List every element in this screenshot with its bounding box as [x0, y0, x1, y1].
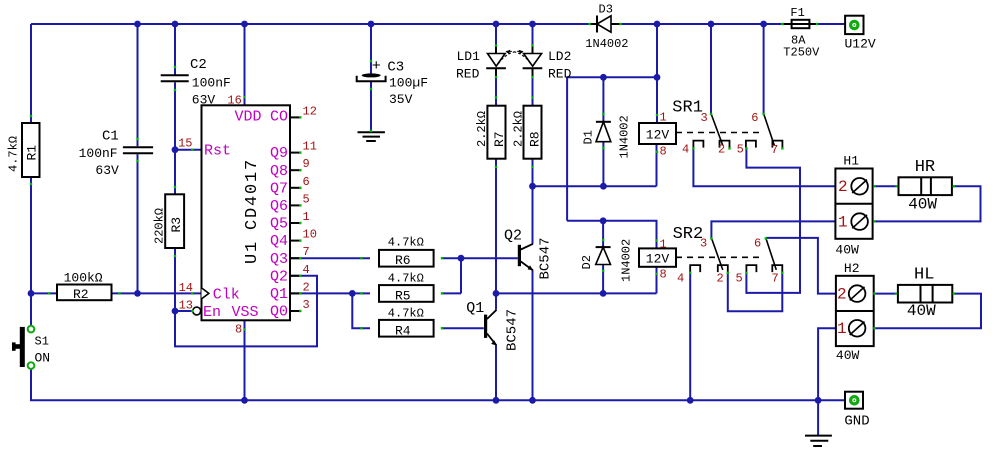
- svg-text:4.7kΩ: 4.7kΩ: [7, 136, 21, 172]
- wire Q1 emitter to ground rail: [495, 346, 497, 401]
- wire rail to C3 plus: [370, 24, 372, 75]
- resistor R5 4.7k: [379, 285, 434, 302]
- svg-text:R3: R3: [169, 217, 184, 233]
- wire fuse F1 to U12V terminal: [817, 23, 846, 25]
- wire D2 anode down: [602, 265, 604, 294]
- svg-text:40W: 40W: [907, 302, 936, 320]
- svg-text:12: 12: [303, 104, 317, 118]
- svg-text:3: 3: [303, 298, 310, 312]
- relay SR1 contact pin 7: [772, 141, 782, 148]
- svg-text:8: 8: [660, 145, 667, 159]
- svg-text:U1: U1: [243, 240, 262, 264]
- svg-text:7: 7: [771, 143, 778, 157]
- wire D1 cathode up: [602, 77, 604, 122]
- resistor R2 100k horizontal: [57, 285, 112, 301]
- svg-text:8: 8: [235, 323, 242, 337]
- svg-text:1: 1: [660, 111, 667, 125]
- capacitor C2 100nF 63V: [161, 74, 189, 76]
- svg-text:1: 1: [660, 238, 667, 252]
- wire rail to SR1 contact pin 3: [710, 24, 712, 114]
- wire R2 right to Clk pin 14: [112, 292, 202, 294]
- svg-text:12V: 12V: [646, 252, 670, 267]
- resistor R4 4.7k: [379, 320, 434, 337]
- relay SR1 contact pin 2: [720, 141, 730, 148]
- svg-text:Q6: Q6: [270, 198, 288, 215]
- pin 6 Q7: [290, 187, 300, 189]
- wire Q3 pin 7 to R6 left: [290, 257, 370, 259]
- svg-text:LD1: LD1: [457, 49, 481, 64]
- svg-text:220kΩ: 220kΩ: [153, 208, 167, 244]
- wire junction to Q2 base: [461, 257, 518, 259]
- resistor R8 2.2k vertical: [524, 106, 542, 159]
- terminal GND: [845, 392, 863, 409]
- svg-text:VSS: VSS: [232, 304, 259, 321]
- wire top rail from R1 top to D3: [31, 23, 589, 25]
- wire junction down to R4 left: [352, 293, 370, 328]
- junction R8/Q2 collector: [529, 183, 536, 190]
- wire rail to VDD pin 16: [244, 24, 246, 105]
- svg-text:VDD: VDD: [235, 109, 262, 126]
- svg-text:3: 3: [700, 237, 707, 251]
- svg-text:2: 2: [718, 143, 725, 157]
- wire Q1 pin 2 to R5 left: [290, 292, 370, 294]
- wire ground rail to earth symbol: [817, 400, 819, 435]
- junction coil feed split: [654, 74, 661, 81]
- svg-text:R7: R7: [492, 131, 507, 147]
- svg-text:Q2: Q2: [270, 268, 288, 285]
- resistor R6 4.7k: [379, 250, 434, 267]
- wire SR2 pin 3 to H1 terminal 1: [711, 221, 835, 238]
- wire SR2 coil top feed: [567, 221, 656, 249]
- svg-text:9: 9: [303, 157, 310, 171]
- svg-text:7: 7: [303, 245, 310, 259]
- svg-text:C1: C1: [102, 129, 119, 145]
- diode D2 1N4002 flyback SR2: [596, 246, 611, 248]
- svg-text:6: 6: [754, 237, 761, 251]
- junction Q1pin/R5/R4: [349, 290, 356, 297]
- wire R6/R5 junction vertical: [460, 258, 462, 293]
- svg-text:Q8: Q8: [270, 163, 288, 180]
- LED LD2 RED: [524, 54, 542, 67]
- svg-text:4: 4: [682, 143, 689, 157]
- svg-text:+: +: [372, 58, 381, 75]
- svg-text:40W: 40W: [908, 196, 937, 214]
- relay SR2 contact pin 2: [718, 265, 728, 272]
- relay SR2 contact pin 5: [746, 265, 756, 272]
- svg-text:En: En: [203, 304, 221, 321]
- relay SR2 contact arm pin 3: [711, 238, 722, 270]
- wire SR2 pin 6 to H2 terminal 2: [766, 238, 836, 294]
- wire rail to LD2 anode: [532, 24, 534, 54]
- svg-text:2: 2: [717, 272, 724, 286]
- wire lamp HL return to H2 terminal 1: [874, 294, 981, 329]
- wire left column rail to R1: [30, 24, 32, 124]
- wire R5 right to junction: [443, 292, 461, 294]
- junction node B C1/R2/Clk: [134, 290, 141, 297]
- svg-text:RED: RED: [456, 67, 480, 82]
- relay SR1 contact arm pin 3: [711, 114, 723, 146]
- svg-text:CO: CO: [270, 109, 288, 126]
- svg-text:S1: S1: [35, 335, 49, 349]
- svg-text:100nF: 100nF: [79, 146, 118, 161]
- junction Q2 emitter/ground: [529, 397, 536, 404]
- wire SR2 pin 4 to ground rail: [689, 272, 691, 400]
- wire lamp HR return to H1 terminal 1: [873, 186, 981, 221]
- capacitor C3 100uF 35V electrolytic: [362, 73, 381, 77]
- svg-text:40W: 40W: [836, 348, 860, 363]
- svg-text:1: 1: [837, 320, 847, 338]
- svg-text:R5: R5: [395, 288, 411, 303]
- svg-text:GND: GND: [844, 414, 869, 430]
- svg-text:10: 10: [303, 228, 317, 242]
- junction rail/SR1 pin6: [760, 21, 767, 28]
- junction En node: [172, 308, 179, 315]
- wire rail to C2 top: [174, 24, 176, 75]
- svg-text:35V: 35V: [389, 92, 413, 107]
- svg-text:1N4002: 1N4002: [618, 115, 632, 158]
- svg-text:4: 4: [303, 263, 310, 277]
- svg-text:RED: RED: [548, 67, 572, 82]
- pin 2 Q1: [290, 292, 300, 294]
- relay SR2 contact pin 4: [690, 265, 700, 272]
- wire rail to LD1 anode: [495, 24, 497, 54]
- relay SR2 dashed link: [676, 256, 764, 258]
- wire rail to C1 top: [137, 24, 139, 146]
- capacitor C1 100nF 63V: [123, 146, 153, 148]
- wire Q1 collector node to SR2 coil bottom: [496, 292, 657, 294]
- ground symbol at bottom rail: [805, 435, 832, 437]
- pin 9 Q8: [290, 169, 300, 171]
- junction rail/C1: [134, 21, 141, 28]
- svg-text:ON: ON: [35, 351, 51, 366]
- svg-text:C3: C3: [387, 60, 404, 76]
- wire R6 right to junction: [443, 257, 461, 259]
- pin 14 Clk with clock wedge: [202, 288, 209, 299]
- junction rail/C2: [172, 21, 179, 28]
- svg-text:63V: 63V: [95, 163, 119, 178]
- wire coil supply horizontal SR1: [567, 76, 657, 78]
- svg-text:2.2kΩ: 2.2kΩ: [512, 111, 526, 147]
- wire S1 bottom + GND bottom rail: [31, 369, 846, 401]
- svg-text:14: 14: [179, 281, 193, 295]
- wire Rst node to R3 top: [174, 150, 176, 195]
- wire D1 anode down: [602, 142, 604, 187]
- junction rail/C3: [368, 21, 375, 28]
- wire coil supply down to SR2: [566, 77, 568, 221]
- svg-text:2: 2: [838, 178, 848, 196]
- pin 11 Q9: [290, 152, 300, 154]
- junction node A R2/S1: [28, 290, 35, 297]
- wire top rail from D3 to fuse F1: [621, 23, 783, 25]
- svg-text:R8: R8: [528, 131, 543, 147]
- svg-text:11: 11: [303, 140, 317, 154]
- LED LD1 RED: [488, 54, 506, 67]
- wire LD1 cathode to R7 top: [495, 68, 497, 105]
- terminal block H1: [835, 169, 872, 239]
- wire SR1 pin 4 to H1 terminal 2: [693, 148, 835, 186]
- svg-text:F1: F1: [790, 6, 804, 20]
- svg-text:Q1: Q1: [466, 300, 484, 317]
- svg-text:4.7kΩ: 4.7kΩ: [388, 307, 424, 321]
- svg-text:Q2: Q2: [504, 228, 522, 245]
- ground symbol at C3: [358, 131, 385, 133]
- svg-text:8: 8: [660, 268, 667, 282]
- wire SR2 coil pin 8 down: [656, 267, 658, 294]
- wire R4 right to Q1 base: [443, 327, 484, 329]
- svg-text:Rst: Rst: [204, 143, 231, 160]
- pin 7 Q3: [290, 257, 300, 259]
- diode D3 1N4002: [589, 23, 597, 25]
- svg-text:R4: R4: [395, 323, 411, 338]
- wire Q2 emitter to ground rail: [532, 270, 534, 400]
- pin 3 Q0: [290, 310, 300, 312]
- svg-text:LD2: LD2: [548, 49, 571, 64]
- diode D1 1N4002 flyback SR1: [596, 121, 611, 123]
- wire H1 terminal 2 to lamp HR: [873, 185, 899, 187]
- svg-text:CD4017: CD4017: [243, 158, 262, 230]
- junction rail/LD1: [493, 21, 500, 28]
- junction H2 pin1/ground: [815, 397, 822, 404]
- svg-text:100nF: 100nF: [192, 76, 231, 91]
- svg-text:Q7: Q7: [270, 180, 288, 197]
- terminal block H2: [836, 276, 874, 346]
- wire R1 bottom to S1: [30, 176, 32, 326]
- fuse F1 8A T250V: [783, 23, 817, 25]
- wire LD2 cathode to R8 top: [532, 68, 534, 105]
- svg-text:4.7kΩ: 4.7kΩ: [388, 236, 424, 250]
- wire H2 terminal 2 to lamp HL: [874, 293, 898, 295]
- wire rail down to SR1 coil pin 1: [656, 24, 658, 123]
- svg-text:U12V: U12V: [845, 37, 876, 52]
- svg-text:R6: R6: [395, 253, 411, 268]
- svg-text:T250V: T250V: [783, 46, 820, 60]
- svg-text:1N4002: 1N4002: [620, 239, 634, 282]
- resistor R3 220k vertical: [165, 194, 184, 248]
- relay SR2 contact arm pin 6: [766, 238, 777, 270]
- svg-text:100kΩ: 100kΩ: [64, 271, 103, 286]
- svg-text:5: 5: [737, 143, 744, 157]
- relay SR1 dashed link: [676, 132, 762, 134]
- transistor Q2 BC547: [518, 245, 521, 266]
- pin 10 Q4: [290, 240, 300, 242]
- wire VSS pin 8 to ground rail: [244, 320, 246, 400]
- wire C3 minus to ground symbol: [370, 81, 372, 133]
- wire R7 bottom to Q1 collector: [495, 159, 497, 310]
- svg-text:H2: H2: [844, 261, 860, 276]
- wire node A to R2 left: [31, 292, 57, 294]
- svg-text:15: 15: [178, 137, 192, 151]
- svg-text:2.2kΩ: 2.2kΩ: [475, 111, 489, 147]
- wire SR1 coil pin 8 down: [656, 144, 658, 186]
- svg-text:BC547: BC547: [538, 237, 554, 279]
- junction rail/SR1 pin3: [708, 21, 715, 28]
- wire R3 bottom / En pin 13 down and over to Q2 pin 4: [175, 248, 317, 346]
- svg-text:Q5: Q5: [270, 216, 288, 233]
- svg-text:100µF: 100µF: [389, 76, 428, 91]
- relay SR1 contact pin 5: [746, 141, 756, 148]
- wire SR2 pin 2 to pin 7 loop: [728, 272, 783, 311]
- junction Q1 emitter/ground: [493, 397, 500, 404]
- svg-text:6: 6: [751, 111, 758, 125]
- svg-text:R2: R2: [73, 287, 89, 302]
- LED emission arrows crossing: [499, 51, 523, 63]
- pin 12 CO: [290, 116, 300, 118]
- svg-text:D2: D2: [580, 255, 594, 269]
- svg-text:Q3: Q3: [270, 251, 288, 268]
- svg-text:5: 5: [303, 192, 310, 206]
- junction SR2 pin4/ground: [687, 397, 694, 404]
- resistor R1 4.7k vertical: [22, 123, 40, 177]
- junction rail/LD2: [529, 21, 536, 28]
- junction Q1 collector node: [493, 290, 500, 297]
- svg-text:SR1: SR1: [672, 99, 703, 118]
- switch S1 pushbutton ON: [28, 326, 35, 333]
- wire C2 bottom to Rst node: [174, 82, 176, 149]
- junction D2 cathode: [600, 217, 607, 224]
- svg-text:13: 13: [179, 298, 193, 312]
- svg-text:R1: R1: [25, 145, 40, 161]
- junction VSS/ground rail: [241, 397, 248, 404]
- svg-text:H1: H1: [843, 154, 859, 169]
- pin end markers: [191, 149, 193, 151]
- svg-text:40W: 40W: [835, 243, 859, 258]
- wire C1 bottom to clock node: [137, 154, 139, 293]
- junction D1 anode: [600, 183, 607, 190]
- resistor R7 2.2k vertical: [487, 106, 505, 159]
- lamp HR 40W: [899, 177, 952, 195]
- wire SR1 pin 5 to SR2 pin 5: [746, 148, 800, 293]
- svg-text:C2: C2: [190, 57, 207, 73]
- pin 13 En inversion bubble: [193, 307, 201, 315]
- junction D2 anode: [600, 290, 607, 297]
- svg-text:5: 5: [736, 272, 743, 286]
- wire Q2 collector node to SR1 coil bottom: [533, 185, 657, 187]
- pin 1 Q5: [290, 222, 300, 224]
- wire R8 bottom to Q2 collector: [532, 159, 534, 244]
- wire Rst node to pin 15: [175, 149, 202, 151]
- pin 5 Q6: [290, 204, 300, 206]
- svg-text:6: 6: [303, 175, 310, 189]
- svg-text:4.7kΩ: 4.7kΩ: [388, 271, 424, 285]
- svg-text:2: 2: [837, 286, 847, 304]
- junction R6/R5 to Q2 base: [458, 255, 465, 262]
- svg-text:16: 16: [227, 94, 241, 108]
- junction rail/SR1 coil feed: [654, 21, 661, 28]
- svg-text:Q9: Q9: [270, 145, 288, 162]
- junction Rst node: [172, 146, 179, 153]
- svg-text:7: 7: [772, 272, 779, 286]
- svg-text:Q0: Q0: [270, 304, 288, 321]
- svg-text:HR: HR: [915, 158, 935, 177]
- op-amp U1 CD4017 body: [202, 105, 291, 320]
- svg-text:D3: D3: [599, 3, 613, 17]
- wire H2 terminal 1 to ground rail: [818, 328, 836, 400]
- svg-text:1: 1: [303, 210, 310, 224]
- lamp HL 40W: [898, 285, 952, 303]
- wire rail to SR1 contact pin 6: [763, 24, 765, 114]
- junction D1 cathode: [600, 74, 607, 81]
- svg-text:BC547: BC547: [505, 309, 521, 351]
- svg-text:4: 4: [677, 272, 684, 286]
- svg-text:HL: HL: [914, 266, 934, 285]
- svg-text:D1: D1: [582, 130, 596, 144]
- wire D2 cathode up: [602, 221, 604, 247]
- relay SR1 contact pin 4: [693, 141, 703, 148]
- terminal U12V: [845, 16, 863, 34]
- svg-text:12V: 12V: [646, 128, 670, 143]
- transistor Q1 BC547: [484, 315, 487, 338]
- svg-text:1N4002: 1N4002: [585, 37, 628, 51]
- wire En node to pin 13 bubble: [175, 310, 193, 312]
- svg-text:Q1: Q1: [270, 286, 288, 303]
- relay SR1 contact arm pin 6: [764, 114, 775, 146]
- svg-text:SR2: SR2: [673, 225, 704, 244]
- relay SR1 coil 12V: [639, 123, 676, 144]
- svg-text:3: 3: [701, 111, 708, 125]
- svg-text:1: 1: [838, 214, 848, 232]
- svg-text:Clk: Clk: [213, 286, 240, 303]
- svg-text:Q4: Q4: [270, 233, 288, 250]
- junction rail/pin16: [241, 21, 248, 28]
- relay SR2 contact pin 7: [772, 265, 782, 272]
- pin 4 Q2: [290, 275, 300, 277]
- svg-text:2: 2: [303, 280, 310, 294]
- relay SR2 coil 12V: [639, 248, 676, 266]
